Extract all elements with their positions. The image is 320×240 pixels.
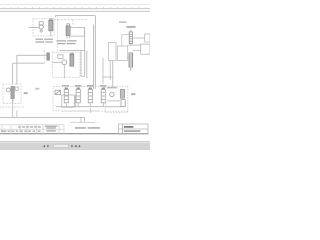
solenoid valve Y2 label — [75, 85, 82, 87]
unit U4 dashed enclosure — [105, 86, 128, 112]
solenoid valve Y4 cap — [102, 88, 104, 89]
leader rail y122.6 — [70, 122, 95, 124]
separator S1 body — [66, 26, 70, 36]
dashed return y109.8 — [62, 110, 128, 112]
dashed drain y107 — [0, 106, 25, 108]
dashed vertical tie x57 — [57, 16, 59, 53]
toolbar icon dot — [47, 145, 48, 147]
wire vertical x112.8 — [112, 61, 114, 87]
PV1 arrow — [56, 91, 60, 94]
dashed net tie line lower — [54, 19, 88, 21]
wire vertical x93.5 — [93, 25, 95, 89]
accumulator A2 — [70, 54, 74, 66]
U1 caption line 1 — [36, 39, 44, 40]
wire y36 — [132, 37, 144, 39]
title box — [119, 124, 149, 134]
revision row 1 text — [18, 126, 57, 129]
valve stub x78.2 — [77, 103, 79, 107]
separator S1 cap — [67, 24, 70, 26]
solenoid valve Y4 label — [100, 85, 107, 87]
revision table top line — [0, 124, 64, 126]
solenoid valve Y4 body — [101, 89, 105, 103]
H1 tail — [130, 67, 132, 71]
cylinder C4b — [121, 100, 125, 107]
separator S1 shell box — [70, 28, 84, 36]
inline valve B1 — [47, 53, 50, 60]
wire into U1 — [29, 27, 39, 29]
solenoid valve Y1 cap — [65, 88, 67, 89]
ref label 1.4 — [131, 93, 135, 95]
valve stub x66.3 — [65, 103, 67, 107]
wire vertical x110.2 — [109, 61, 111, 81]
wire y77 — [103, 76, 113, 78]
pump P3 — [6, 88, 10, 92]
title box mid line — [119, 128, 149, 130]
dashed divider x44 — [43, 50, 45, 63]
wire to TS1 — [130, 29, 132, 32]
top frame ruler line 1 — [0, 8, 150, 10]
dashed vertical tie x73 — [72, 20, 74, 25]
solenoid valve Y2 cap — [77, 88, 79, 89]
solenoid valve Y3 body — [88, 89, 92, 103]
left bus wire y63 — [13, 62, 45, 64]
filter F1 — [49, 20, 53, 31]
revision table dividers — [2, 125, 64, 134]
wire corner y76.3 — [81, 75, 85, 77]
U4 internal wire — [107, 100, 120, 102]
valve stub x90.3 — [89, 103, 91, 107]
revision table mid line — [0, 128, 64, 130]
S1 legs — [66, 36, 68, 39]
valve V3 box — [15, 87, 18, 90]
sheet top edge — [0, 4, 150, 6]
relay box K2 — [141, 44, 150, 54]
wire y58 — [127, 57, 129, 59]
accumulator A2 cap — [71, 53, 74, 54]
wire P2 down — [63, 65, 65, 79]
wire vertical x81 — [80, 51, 82, 77]
Y1 shell box — [62, 95, 75, 107]
wire into U2 — [52, 61, 62, 63]
hook at wire start — [55, 16, 57, 18]
leader stub x13 — [12, 104, 14, 118]
title block bottom line — [0, 133, 149, 135]
U4 caption — [107, 87, 117, 89]
wire vertical x86.8 — [86, 51, 88, 78]
unit U2 dashed enclosure — [52, 52, 80, 77]
dashed net tie line upper — [56, 15, 96, 17]
valve row dashed enclosure — [53, 87, 105, 111]
bottom bus wire — [56, 106, 122, 108]
title text row 1 — [124, 126, 134, 128]
S1 caption line 1 — [57, 40, 67, 41]
centre caption text — [75, 127, 86, 128]
solenoid valve Y1 label — [62, 85, 69, 86]
ref label 2.4 — [24, 92, 28, 94]
filter F1 cap — [50, 19, 53, 20]
unit U1 dashed enclosure — [33, 19, 54, 36]
solenoid valve Y3 label — [87, 85, 94, 87]
relay box K1 — [145, 34, 150, 42]
contact box K4 — [117, 46, 127, 61]
unit U3 dashed enclosure — [3, 84, 21, 104]
solenoid valve Y3 cap — [89, 88, 91, 89]
wire vertical x16.9 — [16, 55, 18, 84]
valve V2 box — [58, 55, 63, 59]
contact box K3 — [109, 43, 117, 61]
motor M1 box — [39, 22, 43, 25]
wire P3 down — [12, 99, 14, 104]
junction tick — [12, 100, 14, 102]
leader stub x84 — [84, 117, 86, 122]
filter F3 — [11, 87, 14, 99]
cylinder C4a — [120, 89, 124, 98]
toolbar icon next — [79, 145, 81, 148]
check valve CV1 — [40, 30, 43, 33]
toolbar page field — [54, 144, 69, 147]
ref label 3.1 — [35, 88, 39, 90]
left bus wire y55 — [17, 54, 47, 56]
wire F1 down — [50, 31, 52, 36]
wire vertical x84.7 — [84, 28, 86, 76]
U1 caption line 2 — [36, 41, 45, 42]
column ticks — [4, 7, 146, 9]
wire vertical x103 — [102, 58, 104, 84]
toolbar — [0, 142, 150, 150]
pump P2 — [62, 60, 67, 65]
wire TS1 left link — [122, 35, 129, 46]
wire vertical x95.3 — [94, 16, 96, 89]
leader stub x81 — [80, 117, 82, 122]
pump P4 — [110, 92, 114, 96]
heater coil H1 — [129, 53, 133, 67]
stub x90 — [89, 108, 91, 113]
node label C-NODE — [119, 21, 127, 23]
toolbar icon prev — [43, 145, 45, 148]
bottom bus line — [0, 116, 85, 118]
TS1 stub — [130, 44, 132, 46]
terminal strip TS1 — [129, 32, 132, 44]
wire y50 — [133, 49, 141, 51]
pump P1 — [39, 25, 43, 29]
top frame ruler line 2 — [0, 10, 150, 12]
solenoid valve Y1 body — [64, 89, 68, 103]
toolbar icon sep — [71, 145, 72, 147]
title text row 2 — [124, 130, 141, 132]
title box divider — [122, 124, 124, 134]
S1 caption line 2 — [58, 43, 66, 44]
revision row 2 text — [1, 130, 56, 131]
pilot valve PV1 — [55, 90, 61, 94]
wire x75 — [74, 95, 76, 107]
node label L-NODE — [127, 26, 136, 28]
wire bus y50.6 — [60, 50, 85, 52]
wire y45 — [127, 44, 140, 46]
leader stub x17 — [16, 111, 18, 118]
valve stub x103.3 — [102, 103, 104, 107]
solenoid valve Y2 body — [76, 89, 80, 103]
toolbar icon up — [75, 145, 78, 147]
wire vertical x12.6 — [12, 63, 14, 85]
